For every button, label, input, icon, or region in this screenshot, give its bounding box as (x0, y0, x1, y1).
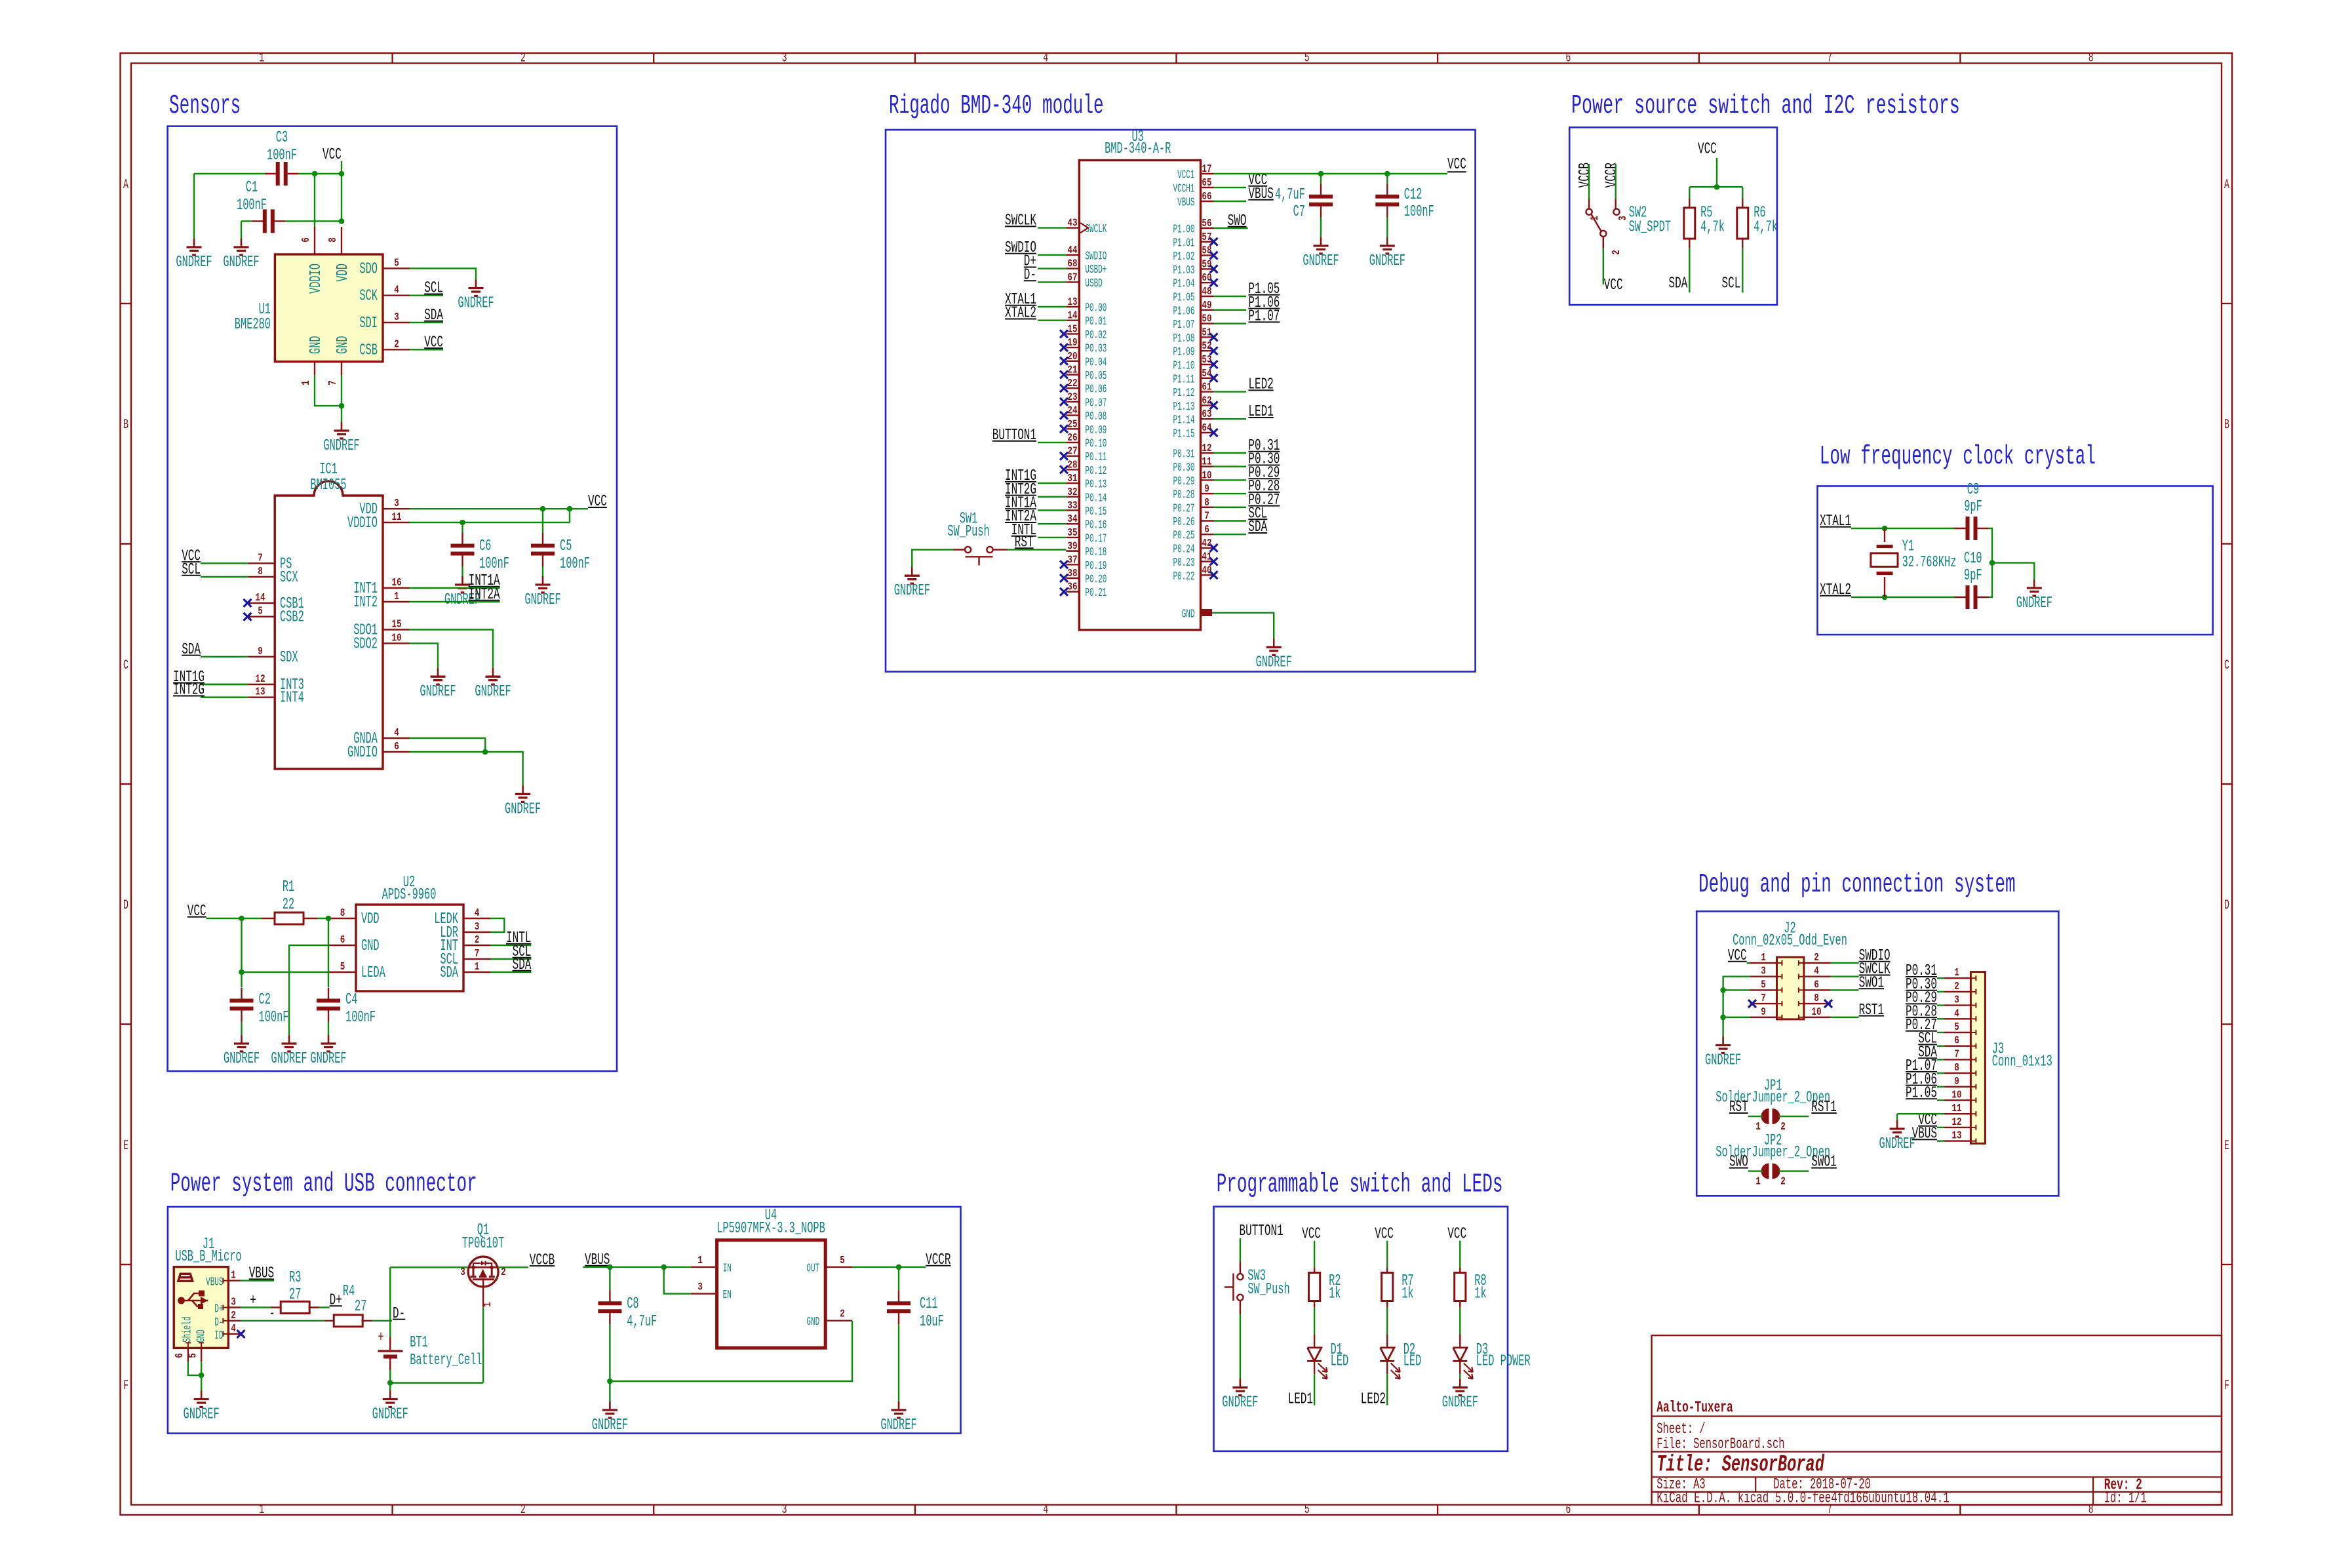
svg-text:6: 6 (1565, 1502, 1571, 1518)
svg-text:GND: GND (361, 937, 380, 955)
svg-text:36: 36 (1067, 581, 1077, 594)
svg-text:SWCLK: SWCLK (1005, 212, 1036, 230)
svg-text:15: 15 (391, 619, 401, 631)
svg-text:P0.13: P0.13 (1085, 479, 1107, 492)
svg-text:GNDREF: GNDREF (1705, 1052, 1741, 1070)
svg-text:1: 1 (259, 1502, 264, 1518)
svg-text:R4: R4 (343, 1283, 355, 1301)
svg-text:GNDREF: GNDREF (1303, 252, 1339, 270)
svg-text:GNDREF: GNDREF (894, 582, 930, 600)
svg-text:USBD: USBD (1085, 277, 1102, 290)
svg-text:USB_B_Micro: USB_B_Micro (175, 1248, 241, 1266)
svg-text:2: 2 (1780, 1176, 1786, 1188)
svg-text:VCC1: VCC1 (1177, 169, 1194, 182)
svg-text:Conn_01x13: Conn_01x13 (1992, 1053, 2052, 1070)
svg-text:VCC: VCC (424, 334, 443, 351)
svg-text:RST: RST (1015, 534, 1034, 552)
svg-text:R1: R1 (283, 878, 294, 896)
svg-text:11: 11 (1202, 456, 1211, 469)
svg-text:6: 6 (1814, 979, 1819, 991)
svg-text:SCL: SCL (182, 561, 201, 579)
svg-text:5: 5 (1304, 1502, 1310, 1518)
svg-text:P0.11: P0.11 (1085, 451, 1107, 464)
svg-text:P0.15: P0.15 (1085, 505, 1107, 519)
svg-text:P0.30: P0.30 (1173, 461, 1195, 475)
svg-text:48: 48 (1202, 286, 1211, 298)
svg-text:GNDREF: GNDREF (475, 683, 511, 701)
svg-text:SDA: SDA (440, 964, 458, 982)
svg-text:C9: C9 (1967, 481, 1979, 499)
svg-text:11: 11 (1951, 1103, 1961, 1115)
svg-text:SCX: SCX (280, 569, 298, 587)
svg-text:5: 5 (1304, 51, 1310, 66)
svg-text:VCC: VCC (1604, 277, 1623, 294)
svg-text:P1.06: P1.06 (1173, 305, 1195, 318)
svg-text:-: - (269, 1305, 275, 1323)
svg-text:C: C (123, 658, 128, 673)
svg-text:22: 22 (1067, 378, 1077, 390)
svg-text:BME280: BME280 (235, 316, 271, 334)
svg-text:D: D (123, 898, 128, 913)
svg-text:VCCR: VCCR (1603, 163, 1621, 188)
svg-text:2: 2 (231, 1310, 236, 1322)
svg-text:RST1: RST1 (1859, 1002, 1884, 1019)
svg-text:Id: 1/1: Id: 1/1 (2104, 1489, 2147, 1506)
svg-text:KiCad E.D.A. kicad 5.0.0-fee4: KiCad E.D.A. kicad 5.0.0-fee4fd166ubuntu… (1656, 1489, 1949, 1506)
svg-text:GNDREF: GNDREF (1879, 1135, 1915, 1153)
svg-text:8: 8 (1954, 1062, 1959, 1074)
svg-text:LEDA: LEDA (361, 964, 385, 982)
svg-text:8: 8 (340, 907, 345, 920)
svg-text:100nF: 100nF (267, 147, 297, 165)
svg-text:1k: 1k (1329, 1285, 1341, 1303)
svg-text:P0.09: P0.09 (1085, 424, 1107, 437)
svg-text:6: 6 (1565, 51, 1571, 66)
svg-text:9pF: 9pF (1964, 567, 1982, 585)
svg-text:E: E (2224, 1139, 2229, 1154)
svg-text:P1.10: P1.10 (1173, 360, 1195, 373)
svg-text:P1.14: P1.14 (1173, 414, 1195, 427)
svg-text:49: 49 (1202, 300, 1211, 312)
svg-text:VCC: VCC (1302, 1226, 1321, 1244)
svg-text:4: 4 (1043, 1502, 1048, 1518)
svg-text:13: 13 (255, 686, 265, 699)
svg-text:P0.03: P0.03 (1085, 343, 1107, 356)
svg-text:VDDIO: VDDIO (347, 515, 378, 532)
svg-text:P0.17: P0.17 (1085, 532, 1107, 545)
svg-text:P1.15: P1.15 (1173, 428, 1195, 441)
svg-text:26: 26 (1067, 432, 1077, 444)
svg-text:14: 14 (1067, 310, 1077, 323)
svg-text:XTAL2: XTAL2 (1005, 305, 1036, 323)
svg-text:3: 3 (231, 1297, 236, 1309)
svg-text:SDO: SDO (359, 260, 378, 278)
svg-text:1k: 1k (1401, 1285, 1413, 1303)
svg-text:12: 12 (1951, 1116, 1961, 1129)
svg-text:21: 21 (1067, 364, 1077, 377)
svg-text:P1.07: P1.07 (1248, 308, 1280, 326)
svg-text:37: 37 (1067, 554, 1077, 566)
svg-text:6: 6 (174, 1353, 186, 1358)
svg-text:1: 1 (1761, 952, 1766, 964)
svg-text:2: 2 (475, 934, 480, 947)
svg-text:INT2G: INT2G (173, 682, 205, 699)
svg-text:R3: R3 (289, 1269, 301, 1287)
svg-text:+: + (378, 1329, 383, 1346)
svg-text:P0.27: P0.27 (1173, 502, 1195, 515)
svg-text:1: 1 (475, 961, 480, 973)
svg-text:GND: GND (806, 1316, 819, 1329)
svg-text:F: F (2224, 1379, 2229, 1394)
svg-text:P0.14: P0.14 (1085, 492, 1107, 505)
svg-text:17: 17 (1202, 163, 1211, 176)
svg-text:VCC: VCC (1447, 156, 1466, 174)
svg-text:P0.12: P0.12 (1085, 465, 1107, 478)
svg-text:28: 28 (1067, 459, 1077, 471)
svg-text:SWO: SWO (1228, 212, 1247, 230)
svg-text:P0.06: P0.06 (1085, 383, 1107, 397)
svg-text:100nF: 100nF (345, 1009, 376, 1027)
svg-text:VCC: VCC (323, 146, 342, 164)
svg-text:1k: 1k (1474, 1285, 1486, 1303)
svg-text:10: 10 (1811, 1006, 1821, 1019)
svg-text:B: B (2224, 418, 2229, 433)
svg-text:INT2A: INT2A (469, 586, 500, 604)
svg-text:7: 7 (327, 380, 340, 385)
svg-text:44: 44 (1067, 245, 1077, 257)
svg-text:100nF: 100nF (259, 1009, 289, 1027)
svg-text:C12: C12 (1404, 186, 1422, 204)
svg-text:7: 7 (1827, 51, 1832, 66)
svg-text:GNDREF: GNDREF (592, 1417, 628, 1434)
svg-text:Programmable switch and LEDs: Programmable switch and LEDs (1217, 1169, 1503, 1200)
svg-text:5: 5 (340, 961, 345, 973)
svg-text:TP0610T: TP0610T (462, 1235, 504, 1253)
svg-text:67: 67 (1067, 271, 1077, 284)
svg-text:VCC: VCC (187, 903, 206, 920)
svg-text:D-: D- (393, 1305, 405, 1323)
svg-text:VCC: VCC (588, 493, 607, 511)
svg-text:2: 2 (840, 1308, 845, 1321)
svg-text:5: 5 (1761, 979, 1766, 991)
svg-text:P0.21: P0.21 (1085, 587, 1107, 600)
svg-text:P0.26: P0.26 (1173, 516, 1195, 529)
svg-text:2: 2 (1954, 981, 1959, 993)
svg-text:GNDREF: GNDREF (420, 683, 456, 701)
svg-text:P0.29: P0.29 (1173, 475, 1195, 488)
svg-text:VBUS: VBUS (1248, 186, 1273, 203)
svg-text:BUTTON1: BUTTON1 (1240, 1223, 1284, 1240)
svg-text:A: A (2224, 178, 2229, 193)
svg-text:P1.08: P1.08 (1173, 332, 1195, 345)
svg-text:35: 35 (1067, 527, 1077, 539)
svg-text:P0.16: P0.16 (1085, 519, 1107, 532)
svg-text:GNDREF: GNDREF (224, 1050, 260, 1068)
svg-text:C2: C2 (259, 991, 271, 1009)
svg-text:P0.19: P0.19 (1085, 560, 1107, 573)
svg-text:100nF: 100nF (560, 555, 590, 573)
svg-text:SWDIO: SWDIO (1085, 250, 1107, 264)
svg-text:Low frequency clock crystal: Low frequency clock crystal (1820, 442, 2096, 472)
svg-text:VDDIO: VDDIO (307, 264, 325, 294)
svg-text:1: 1 (1954, 967, 1959, 979)
svg-text:12: 12 (255, 673, 265, 686)
svg-text:VCCB: VCCB (530, 1251, 555, 1269)
svg-text:LED: LED (1403, 1353, 1422, 1371)
svg-text:2: 2 (520, 1502, 526, 1518)
svg-text:C3: C3 (276, 129, 288, 147)
svg-text:VBUS: VBUS (249, 1265, 274, 1283)
svg-text:C: C (2224, 658, 2229, 673)
svg-text:P1.01: P1.01 (1173, 237, 1195, 250)
svg-text:P1.03: P1.03 (1173, 264, 1195, 277)
svg-text:SDO2: SDO2 (353, 635, 378, 653)
svg-text:C5: C5 (560, 538, 572, 555)
svg-text:SCL: SCL (1722, 275, 1741, 293)
svg-text:10uF: 10uF (920, 1313, 944, 1331)
svg-text:66: 66 (1202, 191, 1211, 203)
svg-text:LED1: LED1 (1288, 1391, 1313, 1409)
svg-text:LP5907MFX-3.3_NOPB: LP5907MFX-3.3_NOPB (716, 1220, 825, 1238)
svg-text:4: 4 (231, 1323, 236, 1335)
svg-text:3: 3 (394, 498, 399, 510)
svg-text:3: 3 (697, 1281, 703, 1293)
svg-text:9: 9 (1954, 1076, 1959, 1088)
svg-text:13: 13 (1067, 296, 1077, 309)
svg-text:Power system and USB connector: Power system and USB connector (170, 1169, 477, 1200)
svg-text:Shield: Shield (182, 1316, 195, 1343)
svg-text:SW_Push: SW_Push (1247, 1281, 1289, 1299)
svg-text:SDA: SDA (424, 307, 443, 324)
svg-text:P0.02: P0.02 (1085, 329, 1107, 342)
svg-text:GNDREF: GNDREF (1369, 252, 1405, 270)
svg-text:SWCLK: SWCLK (1085, 223, 1107, 236)
svg-text:APDS-9960: APDS-9960 (382, 886, 437, 904)
svg-text:BT1: BT1 (410, 1334, 428, 1352)
svg-text:P1.12: P1.12 (1173, 387, 1195, 400)
svg-text:56: 56 (1202, 218, 1211, 230)
svg-text:P1.05: P1.05 (1173, 292, 1195, 305)
svg-text:+: + (250, 1292, 256, 1310)
svg-text:C6: C6 (479, 538, 491, 555)
svg-text:P1.09: P1.09 (1173, 346, 1195, 359)
svg-text:P0.22: P0.22 (1173, 570, 1195, 583)
svg-text:INT2: INT2 (353, 594, 378, 612)
svg-text:P0.28: P0.28 (1173, 489, 1195, 502)
svg-text:GNDREF: GNDREF (880, 1417, 916, 1434)
svg-text:C10: C10 (1964, 550, 1982, 568)
svg-text:SDI: SDI (359, 315, 378, 332)
svg-text:P0.24: P0.24 (1173, 543, 1195, 556)
svg-text:1: 1 (259, 51, 264, 66)
svg-text:Sheet: /: Sheet: / (1656, 1421, 1705, 1438)
svg-text:B: B (123, 418, 128, 433)
svg-text:13: 13 (1951, 1130, 1961, 1143)
svg-text:P0.20: P0.20 (1085, 574, 1107, 587)
svg-text:8: 8 (1204, 497, 1209, 509)
svg-text:F: F (123, 1379, 128, 1394)
svg-text:61: 61 (1202, 382, 1211, 394)
svg-text:4: 4 (394, 284, 399, 297)
svg-text:P1.02: P1.02 (1173, 250, 1195, 264)
svg-text:P0.18: P0.18 (1085, 546, 1107, 559)
svg-text:1: 1 (394, 591, 399, 603)
svg-text:12: 12 (1202, 442, 1211, 455)
svg-text:XTAL2: XTAL2 (1820, 581, 1851, 599)
svg-text:8: 8 (327, 237, 340, 243)
svg-text:SDA: SDA (182, 641, 201, 659)
svg-text:3: 3 (475, 921, 480, 933)
svg-text:34: 34 (1067, 513, 1077, 526)
svg-text:24: 24 (1067, 405, 1077, 418)
svg-text:Sensors: Sensors (169, 91, 241, 121)
svg-text:VCC: VCC (1728, 947, 1747, 965)
svg-text:LED: LED (1331, 1353, 1349, 1371)
svg-text:LED POWER: LED POWER (1476, 1353, 1531, 1371)
svg-text:SCK: SCK (359, 288, 378, 305)
svg-text:5: 5 (258, 606, 263, 618)
svg-text:VCCB: VCCB (1577, 163, 1594, 187)
svg-text:6: 6 (394, 741, 399, 753)
svg-text:C8: C8 (627, 1295, 638, 1313)
svg-text:32: 32 (1067, 486, 1077, 499)
svg-text:7: 7 (1204, 511, 1209, 523)
svg-text:4: 4 (475, 907, 480, 920)
svg-text:A: A (123, 178, 128, 193)
svg-text:File: SensorBoard.sch: File: SensorBoard.sch (1656, 1436, 1784, 1453)
svg-text:VCC: VCC (1447, 1226, 1466, 1244)
svg-text:100nF: 100nF (237, 197, 267, 214)
svg-text:4,7uF: 4,7uF (627, 1313, 657, 1331)
svg-text:6: 6 (340, 934, 345, 947)
svg-text:43: 43 (1067, 218, 1077, 230)
svg-text:LED1: LED1 (1248, 403, 1273, 421)
svg-text:GNDREF: GNDREF (458, 295, 494, 313)
svg-text:1: 1 (231, 1270, 236, 1282)
svg-text:2: 2 (1814, 952, 1819, 964)
svg-text:P1.04: P1.04 (1173, 278, 1195, 291)
svg-text:GNDREF: GNDREF (184, 1406, 220, 1424)
svg-text:Aalto-Tuxera: Aalto-Tuxera (1656, 1399, 1733, 1417)
svg-text:BUTTON1: BUTTON1 (992, 427, 1036, 444)
svg-text:1: 1 (1755, 1121, 1761, 1133)
svg-text:6: 6 (1954, 1035, 1959, 1048)
svg-text:27: 27 (1067, 446, 1077, 458)
svg-text:19: 19 (1067, 337, 1077, 349)
svg-text:38: 38 (1067, 568, 1077, 580)
svg-text:P0.01: P0.01 (1085, 315, 1107, 328)
svg-text:63: 63 (1202, 408, 1211, 421)
svg-text:Debug and pin connection syste: Debug and pin connection system (1698, 870, 2016, 900)
svg-text:8: 8 (2088, 51, 2094, 66)
svg-text:4,7k: 4,7k (1700, 219, 1725, 237)
svg-text:XTAL1: XTAL1 (1820, 513, 1851, 530)
svg-text:31: 31 (1067, 473, 1077, 485)
svg-text:GNDREF: GNDREF (372, 1406, 408, 1424)
svg-text:P0.04: P0.04 (1085, 356, 1107, 369)
svg-text:9pF: 9pF (1964, 498, 1982, 516)
svg-text:3: 3 (782, 1502, 787, 1518)
svg-text:CSB: CSB (359, 342, 378, 359)
svg-text:32.768KHz: 32.768KHz (1902, 554, 1957, 572)
svg-text:3: 3 (394, 311, 399, 324)
svg-text:P1.13: P1.13 (1173, 401, 1195, 414)
svg-text:C1: C1 (246, 179, 258, 197)
svg-text:VBUS: VBUS (206, 1276, 223, 1289)
svg-text:C11: C11 (920, 1295, 938, 1313)
svg-text:VBUS: VBUS (1177, 197, 1194, 210)
svg-text:9: 9 (258, 646, 263, 658)
svg-text:BMI055: BMI055 (310, 477, 346, 494)
svg-text:2: 2 (1611, 250, 1623, 255)
svg-text:100nF: 100nF (1404, 203, 1434, 221)
svg-text:3: 3 (1954, 994, 1959, 1007)
svg-text:EN: EN (723, 1289, 732, 1302)
svg-text:BMD-340-A-R: BMD-340-A-R (1105, 140, 1171, 158)
svg-text:GNDREF: GNDREF (524, 591, 560, 609)
svg-text:D+: D+ (330, 1292, 342, 1310)
svg-text:GNDREF: GNDREF (2016, 595, 2052, 612)
svg-text:P1.00: P1.00 (1173, 224, 1195, 237)
svg-text:P1.07: P1.07 (1173, 319, 1195, 332)
svg-text:GND: GND (307, 336, 325, 354)
svg-text:Battery_Cell: Battery_Cell (410, 1352, 482, 1369)
svg-text:10: 10 (1202, 469, 1211, 482)
svg-text:5: 5 (394, 257, 399, 269)
svg-text:27: 27 (289, 1286, 301, 1304)
svg-text:D: D (2224, 898, 2229, 913)
svg-text:P0.31: P0.31 (1173, 448, 1195, 461)
svg-text:1: 1 (1755, 1176, 1761, 1188)
svg-text:3: 3 (1761, 966, 1766, 978)
svg-text:Power source switch and I2C r: Power source switch and I2C resistors (1571, 91, 1960, 121)
svg-text:10: 10 (1951, 1089, 1961, 1102)
svg-text:4,7uF: 4,7uF (1275, 186, 1305, 204)
svg-text:3: 3 (460, 1266, 465, 1279)
svg-text:D-: D- (1024, 266, 1036, 284)
svg-text:27: 27 (355, 1298, 366, 1316)
svg-text:VCC: VCC (1698, 141, 1717, 159)
svg-text:VDD: VDD (361, 911, 380, 928)
svg-text:P0.00: P0.00 (1085, 302, 1107, 315)
svg-text:1: 1 (697, 1255, 703, 1267)
svg-text:5: 5 (840, 1255, 845, 1267)
svg-text:GNDREF: GNDREF (310, 1050, 346, 1068)
svg-text:GNDREF: GNDREF (271, 1050, 307, 1068)
svg-text:GND: GND (334, 336, 352, 354)
svg-text:4,7k: 4,7k (1754, 219, 1778, 237)
svg-text:GNDREF: GNDREF (323, 437, 359, 455)
svg-text:16: 16 (391, 577, 401, 589)
svg-text:2: 2 (520, 51, 526, 66)
svg-text:68: 68 (1067, 258, 1077, 271)
svg-text:P0.25: P0.25 (1173, 530, 1195, 543)
svg-text:CSB2: CSB2 (280, 609, 304, 627)
svg-text:SW_Push: SW_Push (947, 523, 989, 541)
svg-text:LED2: LED2 (1248, 376, 1273, 394)
svg-text:6: 6 (300, 237, 313, 243)
svg-text:7: 7 (1954, 1048, 1959, 1061)
svg-text:GNDREF: GNDREF (1222, 1394, 1258, 1412)
svg-text:23: 23 (1067, 391, 1077, 404)
svg-text:SCL: SCL (424, 280, 443, 298)
svg-text:GNDREF: GNDREF (1442, 1394, 1478, 1412)
svg-text:7: 7 (475, 948, 480, 960)
svg-text:33: 33 (1067, 500, 1077, 513)
svg-text:SDA: SDA (1248, 519, 1267, 536)
svg-text:2: 2 (394, 338, 399, 351)
svg-text:GNDREF: GNDREF (223, 254, 259, 271)
